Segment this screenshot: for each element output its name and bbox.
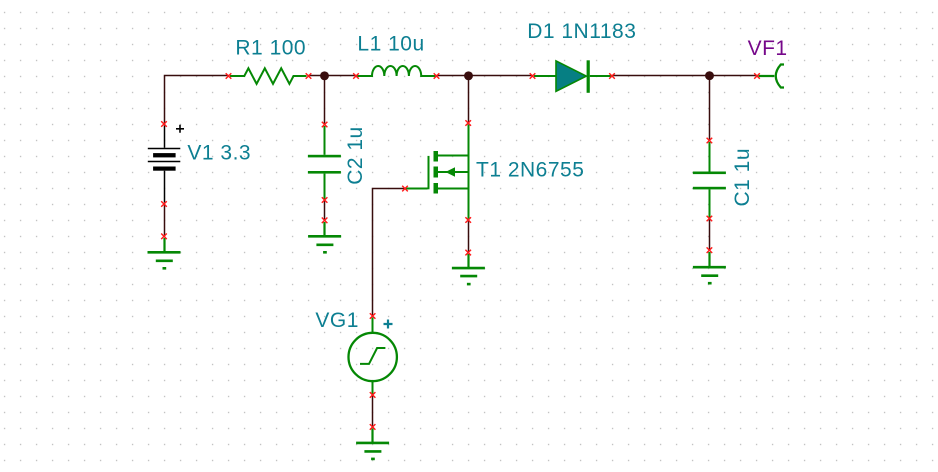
- capacitor C2: [308, 126, 341, 199]
- wire C2 to ground: [324, 200, 326, 220]
- diode D1: [534, 60, 611, 93]
- svg-text:D1 1N1183: D1 1N1183: [527, 20, 636, 43]
- plus sign of VG1: [384, 320, 393, 329]
- ground of C2: [308, 222, 341, 252]
- svg-text:L1 10u: L1 10u: [357, 33, 424, 56]
- svg-text:C2 1u: C2 1u: [344, 126, 367, 185]
- wire D1 to VF1 through node: [612, 75, 757, 77]
- wire V1 minus to ground: [164, 204, 166, 236]
- wire L1 to D1 through node: [437, 75, 533, 77]
- wire node to C1: [709, 76, 711, 141]
- svg-text:VG1: VG1: [315, 309, 359, 332]
- wire node to T1 drain: [468, 76, 470, 123]
- generator VG1: [349, 318, 397, 395]
- svg-text:C1 1u: C1 1u: [731, 148, 754, 207]
- svg-text:VF1: VF1: [748, 37, 788, 60]
- wire VG1 to ground: [372, 395, 374, 427]
- wire T1 source to ground: [468, 220, 470, 253]
- plus sign of V1: [176, 125, 184, 133]
- node junction at D1/C1: [705, 71, 714, 80]
- inductor L1: [357, 66, 436, 76]
- resistor R1: [230, 68, 307, 84]
- svg-text:V1 3.3: V1 3.3: [187, 141, 251, 164]
- wire node to C2: [324, 76, 326, 125]
- wire R1 to L1 through node: [309, 75, 357, 77]
- wire C1 to ground: [709, 219, 711, 251]
- transistor T1 NMOS: [405, 125, 469, 219]
- voltage pin VF1 probe: [759, 65, 785, 88]
- node junction at L1/T1: [464, 71, 473, 80]
- ground of T1: [452, 254, 485, 284]
- wire T1 gate to VG1: [373, 189, 406, 317]
- capacitor C1: [693, 142, 726, 218]
- node junction at R1/C2: [320, 71, 329, 80]
- battery V1: [148, 126, 181, 203]
- ground of VG1: [356, 429, 389, 459]
- ground of C1: [693, 252, 726, 283]
- wire top-left from V1 to R1: [165, 76, 229, 125]
- ground of V1: [148, 238, 181, 268]
- svg-text:T1 2N6755: T1 2N6755: [476, 159, 584, 182]
- pin marks (red x): [161, 73, 760, 430]
- svg-text:R1 100: R1 100: [235, 36, 306, 59]
